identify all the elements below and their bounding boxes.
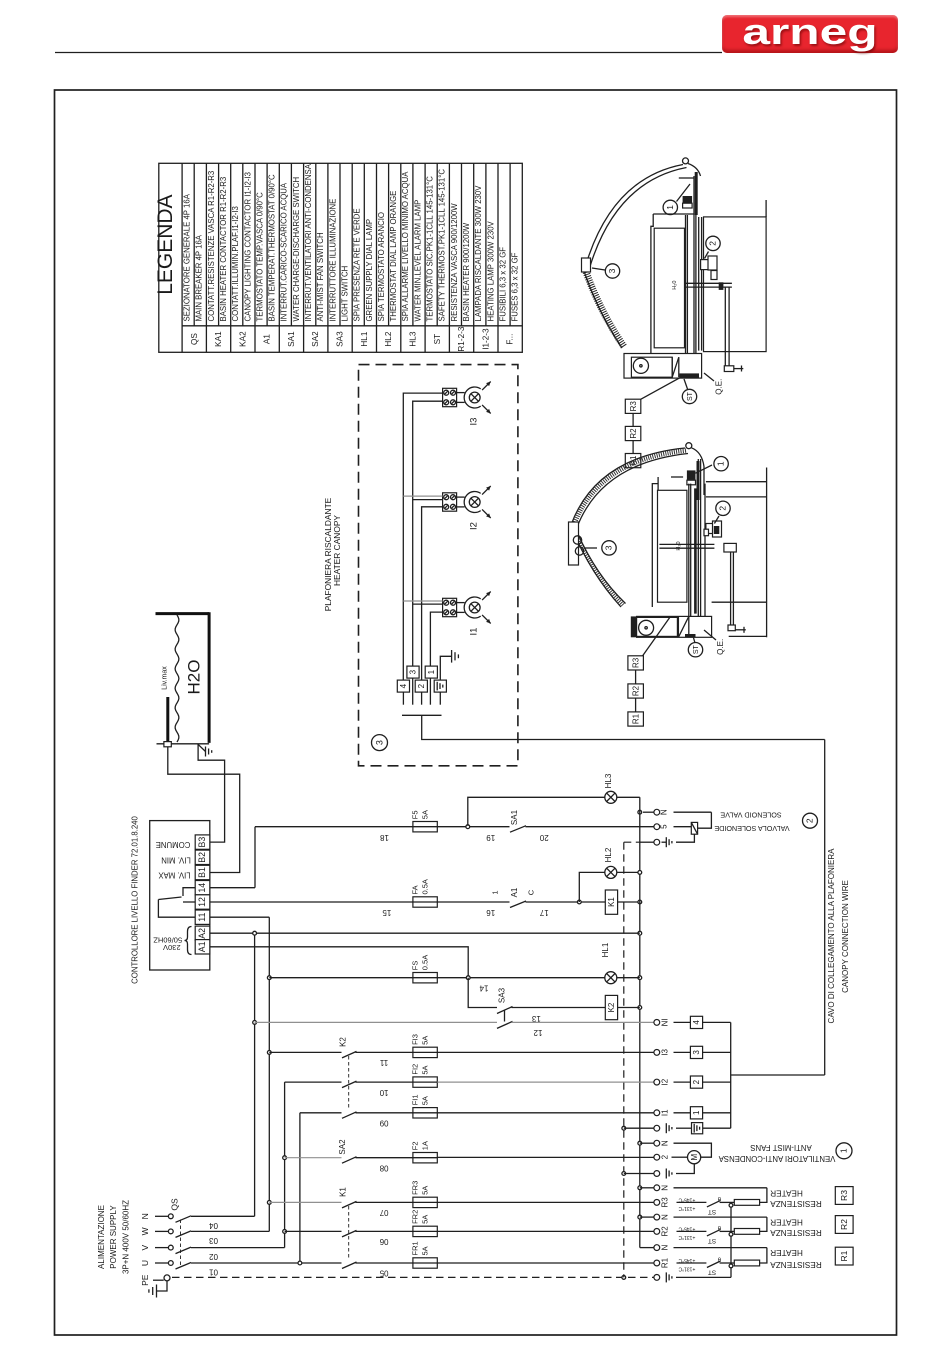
svg-text:12: 12 [197,897,207,907]
heat lamp fixture (case2) [687,470,696,480]
svg-text:PE: PE [140,1274,150,1286]
svg-text:+131°C: +131°C [678,1266,695,1272]
lamp terminal block I2 [443,493,457,511]
svg-text:0.5A: 0.5A [420,879,429,894]
canopy plug stubs [402,692,404,705]
designator box R1 [835,1247,853,1265]
callout 2 (valve) [803,813,818,828]
fuse FR2 5A [413,1226,437,1236]
fuse F2 1A [413,1153,437,1163]
svg-text:A2: A2 [197,928,207,939]
svg-text:N: N [660,809,669,815]
svg-text:1: 1 [490,890,499,894]
svg-text:HL2: HL2 [604,847,613,862]
svg-text:I2: I2 [469,522,480,530]
level probe electrode [166,697,169,742]
callout 3 (canopy) [372,735,388,751]
svg-text:U: U [140,1260,150,1266]
FS row [269,977,413,979]
PE dashed wire [172,1276,654,1278]
wire B3 (tank bottom to controller B3) [198,744,225,842]
heater R2 group [674,1216,767,1218]
terminal NI [654,1020,660,1026]
svg-text:HEATER: HEATER [770,1188,803,1197]
svg-text:WATER MIN.LEVEL ALARM LAMP: WATER MIN.LEVEL ALARM LAMP [413,200,422,322]
thermostat ST (R3) [707,1200,721,1207]
display case section 2 (bottom) [569,443,767,726]
svg-text:ST: ST [708,1269,716,1276]
terminal R1 [654,1260,660,1266]
svg-text:5A: 5A [420,1036,429,1045]
svg-text:N: N [661,1185,670,1191]
svg-text:09: 09 [379,1119,388,1128]
svg-text:2: 2 [718,506,728,511]
terminal 2 [654,1154,660,1160]
svg-text:4: 4 [399,683,408,688]
PE terminal [153,1279,164,1281]
svg-text:MAIN BREAKER 4P 16A: MAIN BREAKER 4P 16A [195,234,204,321]
NI wire (lamp neutral) [255,1021,497,1023]
canopy box 1 [425,666,437,678]
fuse FR1 5A [413,1258,437,1268]
svg-text:R1-2-3: R1-2-3 [457,326,466,351]
svg-text:FI2: FI2 [410,1064,419,1075]
svg-text:RESISTENZA: RESISTENZA [770,1228,822,1237]
svg-text:11: 11 [197,913,207,922]
box 4 [674,1021,691,1023]
terminal N [654,1214,660,1220]
svg-text:5A: 5A [420,1096,429,1105]
svg-text:5: 5 [660,824,669,829]
PE earth symbol [157,1281,168,1291]
callout 3 (case1) [592,268,605,270]
svg-text:3: 3 [409,669,418,674]
svg-text:02: 02 [209,1252,218,1261]
svg-text:RESISTENZA: RESISTENZA [770,1260,822,1269]
wire B1 (probe to controller B1) [168,747,240,873]
contactor coil K2 [605,995,617,1019]
water pipe (case2) [659,543,714,545]
svg-text:17: 17 [539,908,548,917]
svg-text:K1: K1 [339,1187,348,1197]
legend column SA2 [303,163,305,352]
svg-text:19: 19 [486,833,495,842]
svg-text:SPIA PRESENZA RETE VERDE: SPIA PRESENZA RETE VERDE [353,208,362,321]
box 2 [674,1081,691,1083]
svg-text:R3: R3 [661,1197,670,1208]
svg-text:R2: R2 [629,428,638,439]
heater row 07 [269,1201,341,1203]
level controller FINDER box [150,821,210,970]
tank earth [198,744,206,752]
legend table [159,163,523,352]
svg-text:14: 14 [479,983,488,992]
svg-text:+145°C: +145°C [678,1257,695,1263]
svg-text:5A: 5A [420,810,429,819]
bus N vertical (V1) [254,933,256,1216]
svg-text:NI: NI [661,1018,670,1026]
svg-text:5A: 5A [420,1065,429,1074]
water pipe (case1) [686,282,732,284]
svg-text:FR1: FR1 [410,1241,419,1255]
switch SA3 branch [468,978,497,1008]
svg-text:SEZIONATORE GENERALE 4P 16A: SEZIONATORE GENERALE 4P 16A [183,193,192,321]
svg-text:5A: 5A [420,1246,429,1255]
svg-text:R1: R1 [839,1250,849,1261]
plug line [402,714,442,716]
svg-text:2: 2 [661,1154,670,1159]
svg-text:KA1: KA1 [214,331,223,347]
arneg logo [722,15,898,53]
svg-text:3P+N 400V 50/60HZ: 3P+N 400V 50/60HZ [122,1200,131,1274]
PE dashed riser [623,842,625,1277]
lamp HL2 branch [579,872,605,902]
case1 base [624,354,702,379]
svg-text:1: 1 [716,461,726,466]
svg-text:CAVO DI COLLEGAMENTO ALLA PLAF: CAVO DI COLLEGAMENTO ALLA PLAFONIERA [827,848,836,1024]
svg-text:INTERRUT.VENTILATORI ANTI-COND: INTERRUT.VENTILATORI ANTI-CONDENSA [304,163,313,321]
svg-text:HEATER: HEATER [770,1218,803,1227]
fuse FA 0.5A [413,897,437,907]
svg-text:06: 06 [379,1237,388,1246]
svg-text:WATER CHARGE-DISCHARGE SWITCH: WATER CHARGE-DISCHARGE SWITCH [292,177,301,322]
svg-text:+131°C: +131°C [678,1234,695,1240]
water valve assembly (case1) [701,260,709,270]
svg-text:C: C [527,889,536,895]
svg-text:05: 05 [379,1269,388,1278]
svg-text:15: 15 [382,908,391,917]
svg-text:K2: K2 [339,1037,348,1047]
canopy outgoing cable [422,715,825,739]
svg-text:BASIN HEATER CONTACTOR R1-R2-R: BASIN HEATER CONTACTOR R1-R2-R3 [219,177,228,322]
svg-text:11: 11 [379,1058,388,1067]
bus W vertical (V2) [268,917,270,1231]
svg-text:+145°C: +145°C [678,1225,695,1231]
basin (case2) [658,490,687,602]
svg-text:SA1: SA1 [510,809,519,825]
svg-text:CANOPY LIGHTING CONTACTOR I1-I: CANOPY LIGHTING CONTACTOR I1-I2-I3 [243,172,252,321]
svg-text:ST: ST [708,1237,716,1244]
heater canopy dashed box [359,365,518,766]
legend column SA3 [327,163,329,352]
terminal R2 [654,1229,660,1235]
svg-text:3: 3 [374,740,384,745]
earth glyph [662,841,667,843]
svg-text:2: 2 [417,683,426,688]
svg-text:BASIN HEATER 900/1200W: BASIN HEATER 900/1200W [462,222,471,321]
fan earth wire [676,1164,694,1173]
lamp HL3 [605,791,617,803]
wire 03 (W) [191,1230,269,1232]
heat lamp I1 [457,602,465,604]
canopy earth symbol [440,656,451,680]
svg-text:1: 1 [427,669,436,674]
legend column HL1 [351,163,353,352]
callout 1 (fans) [836,1143,852,1159]
controller terminal 11 [195,910,210,924]
terminal E1 [654,1125,660,1131]
heating element R1 [734,1260,759,1266]
canopy cable riser [824,740,826,1076]
svg-text:+131°C: +131°C [678,1205,695,1211]
svg-text:H₂0: H₂0 [676,541,682,550]
controller terminal B3 [195,835,210,849]
lamp HL1 [605,972,617,984]
ST callout (case1) [684,379,688,389]
R boxes chain (case2) [642,617,670,656]
svg-text:03: 03 [209,1236,218,1245]
svg-text:N: N [661,1244,670,1250]
legend column R1-2-3 [448,163,450,352]
svg-text:KA2: KA2 [238,331,247,347]
legend column QS [193,163,195,325]
fuse FR3 5A [413,1197,437,1207]
heater R3 group [674,1187,767,1189]
svg-text:FI1: FI1 [410,1094,419,1105]
svg-text:ANTI-MIST FANS: ANTI-MIST FANS [750,1143,811,1152]
terminal N [654,1245,660,1251]
earth box [676,1127,692,1129]
svg-text:R1: R1 [661,1257,670,1268]
canopy cable bracket [730,1022,732,1128]
SA3 linkage [504,1011,506,1022]
svg-text:Liv.max: Liv.max [162,666,169,690]
heat lamp I2 [457,496,465,498]
rear bench wall (case1) [704,217,767,352]
canopy box 3 [407,666,419,678]
bus 14->18 vertical [254,827,256,888]
svg-text:COMUNE: COMUNE [156,840,191,849]
svg-text:SA3: SA3 [336,331,345,347]
svg-text:01: 01 [209,1268,218,1277]
controller terminal 14 [195,881,210,895]
svg-text:INTERRUT.CARICO-SCARICO ACQUA: INTERRUT.CARICO-SCARICO ACQUA [280,182,289,321]
svg-text:HL1: HL1 [360,331,369,346]
svg-text:18: 18 [380,833,389,842]
svg-text:N: N [661,1140,670,1146]
svg-text:3: 3 [604,545,614,550]
svg-text:ST: ST [433,334,442,344]
svg-text:3: 3 [692,1050,701,1055]
svg-text:HEATING LAMP 300W 230V: HEATING LAMP 300W 230V [486,220,495,321]
svg-text:50/60HZ: 50/60HZ [153,935,182,944]
svg-text:GREEN SUPPLY DIAL LAMP: GREEN SUPPLY DIAL LAMP [365,219,374,322]
callout 2 (case1) [705,252,709,259]
svg-text:TERMOSTATO SIC.PK1-1CLL 145-13: TERMOSTATO SIC.PK1-1CLL 145-131°C [426,176,435,322]
legend column I1-2-3 [473,163,475,352]
svg-text:CONTATT.RESISTENZE VASCA R1-R2: CONTATT.RESISTENZE VASCA R1-R2-R3 [207,171,216,322]
svg-text:R2: R2 [661,1226,670,1237]
svg-text:SA2: SA2 [338,1139,347,1155]
svg-text:2: 2 [692,1079,701,1084]
svg-text:SA2: SA2 [311,331,320,347]
svg-text:HL3: HL3 [408,331,417,346]
lamp HL3 branch [468,797,605,826]
svg-text:FS: FS [410,961,419,971]
heater sheath earth line [730,1205,732,1277]
svg-text:θ: θ [717,1256,721,1262]
svg-text:BASIN TEMPERAT.THERMOSTAT 0/90: BASIN TEMPERAT.THERMOSTAT 0/90°C [268,174,277,321]
solenoid valve [698,812,712,828]
terminal E2 [654,1171,660,1177]
case2 base [637,616,712,637]
legend column HL2 [376,163,378,352]
svg-text:K1: K1 [607,897,616,907]
svg-text:VENTILATORI ANTI-CONDENSA: VENTILATORI ANTI-CONDENSA [718,1154,835,1163]
svg-text:0.5A: 0.5A [420,955,429,970]
svg-text:LIV. MAX: LIV. MAX [158,871,191,880]
canopy wiring columns [403,393,442,680]
svg-text:I2: I2 [661,1078,670,1085]
svg-text:QS: QS [190,333,199,345]
svg-text:R1: R1 [631,713,640,724]
PE terminal (valve) [640,841,654,843]
svg-text:SPIA TERMOSTATO ARANCIO: SPIA TERMOSTATO ARANCIO [377,212,386,321]
fan motor M [672,1156,688,1158]
controller terminal B2 [195,850,210,864]
svg-text:SA1: SA1 [287,331,296,347]
svg-text:SA3: SA3 [498,987,507,1003]
svg-text:04: 04 [209,1221,218,1230]
svg-text:H₂0: H₂0 [672,281,678,290]
terminal I3 [654,1050,660,1056]
water valve assembly (case2) [706,524,714,534]
wire A1 row [210,947,468,978]
svg-text:θ: θ [717,1195,721,1201]
svg-text:H2O: H2O [185,660,204,695]
svg-text:RESISTENZA VASCA 900/1200W: RESISTENZA VASCA 900/1200W [450,203,459,322]
fuse F5 5A [413,822,437,832]
svg-text:F...: F... [506,334,515,345]
svg-text:SAFETY THERMOST.PK1-1CLL 145-1: SAFETY THERMOST.PK1-1CLL 145-131°C [438,169,447,322]
legend column KA1 [205,163,207,352]
legend column F... [497,163,499,352]
svg-text:16: 16 [486,908,495,917]
svg-text:I1-2-3: I1-2-3 [481,328,490,350]
designator box R2 [835,1216,853,1234]
controller terminal A2 [195,926,210,940]
svg-text:LIV. MIN: LIV. MIN [161,855,191,864]
svg-text:W: W [140,1227,150,1235]
row I2 [285,1081,342,1083]
bus U vertical (V4) [299,1113,301,1263]
fan (case1) [633,358,648,373]
svg-text:TERMOSTATO TEMP.VASCA 0/90°C: TERMOSTATO TEMP.VASCA 0/90°C [255,192,264,322]
fan (case2) [639,620,654,635]
svg-text:I3: I3 [661,1049,670,1056]
canopy box 4 [397,680,409,692]
svg-text:THERMOSTAT DIAL LAMP ORANGE: THERMOSTAT DIAL LAMP ORANGE [389,191,398,322]
terminal N [654,1140,660,1146]
svg-text:INTERRUTTORE ILLUMINAZIONE: INTERRUTTORE ILLUMINAZIONE [328,199,337,322]
svg-text:HEATER CANOPY: HEATER CANOPY [332,515,342,586]
svg-text:12: 12 [533,1028,542,1037]
svg-text:ST: ST [708,1208,716,1215]
fuse FI2 5A [413,1077,437,1087]
svg-text:LEGENDA: LEGENDA [154,194,177,294]
legend column ST [424,163,426,352]
svg-text:1: 1 [692,1110,701,1115]
svg-text:F5: F5 [410,810,419,819]
H2O tank [156,612,210,615]
svg-text:FI3: FI3 [410,1034,419,1045]
ST callout (case2) [693,636,695,643]
thermostat ST (R2) [707,1229,721,1236]
svg-text:CANOPY CONNECTION WIRE: CANOPY CONNECTION WIRE [841,880,850,993]
switch SA2 row [285,1157,342,1159]
terminal E3 [654,1275,660,1281]
brace [185,927,192,955]
R boxes chain (case1) [641,376,683,399]
svg-text:08: 08 [379,1163,388,1172]
svg-text:A1: A1 [263,334,272,344]
svg-text:LAMPADA RISCALDANTE 300W 230V: LAMPADA RISCALDANTE 300W 230V [474,185,483,322]
svg-text:ST: ST [693,645,700,655]
basin (case1) [654,228,684,348]
svg-text:N: N [140,1213,150,1219]
fuse FI3 5A [413,1047,437,1057]
svg-text:HL3: HL3 [604,773,613,788]
svg-text:M: M [690,1154,699,1161]
svg-text:SPIA ALLARME LIVELLO MINIMO AC: SPIA ALLARME LIVELLO MINIMO ACQUA [401,171,410,322]
svg-text:2: 2 [708,241,718,246]
bus V vertical (V3) [284,1082,286,1248]
lamp terminal block I1 [443,598,457,616]
heater row 06 [285,1230,342,1232]
legend column HL3 [400,163,402,352]
designator box R3 [835,1187,853,1205]
wire 18 row [255,826,413,828]
svg-text:ANTI-MIST FAN SWITCH: ANTI-MIST FAN SWITCH [316,232,325,321]
svg-text:+145°C: +145°C [678,1196,695,1202]
svg-text:Q.E.: Q.E. [716,639,725,655]
svg-text:1: 1 [839,1148,849,1153]
callout 1 (case2) [696,465,713,473]
heater row 05 [302,1262,342,1264]
legend column A1 [254,163,256,352]
lamp terminal block I3 [443,388,457,406]
N terminal (valve) [643,811,654,813]
QS linkage [180,1220,182,1267]
svg-text:I3: I3 [469,418,480,426]
terminal N [654,1185,660,1191]
box 1 [674,1112,691,1114]
svg-text:1: 1 [665,205,675,210]
terminal R3 [654,1200,660,1206]
terminal I2 [654,1079,660,1085]
svg-text:VALVOLA SOLENOIDE: VALVOLA SOLENOIDE [714,824,789,833]
N bus vertical right [639,797,641,1247]
svg-text:4: 4 [692,1020,701,1025]
display case section 1 (top) [582,158,767,468]
svg-text:HEATER: HEATER [770,1248,803,1257]
svg-text:20: 20 [539,833,548,842]
callout 3 (case2) [585,547,597,549]
controller terminal A1 [195,940,210,954]
svg-text:ST: ST [687,391,694,401]
legend column KA2 [230,163,232,352]
controller terminal 12 [195,895,210,909]
heating element R2 [734,1229,759,1235]
svg-text:Q.E.: Q.E. [715,379,724,395]
wire 01 (U) [191,1262,300,1264]
svg-text:B1: B1 [197,867,207,878]
callout 2 (case2) [714,516,719,524]
svg-text:K2: K2 [607,1002,616,1012]
svg-text:I1: I1 [469,628,480,636]
svg-text:07: 07 [379,1208,388,1217]
svg-text:FUSIBILI 6,3 x 32 GF: FUSIBILI 6,3 x 32 GF [498,247,507,322]
